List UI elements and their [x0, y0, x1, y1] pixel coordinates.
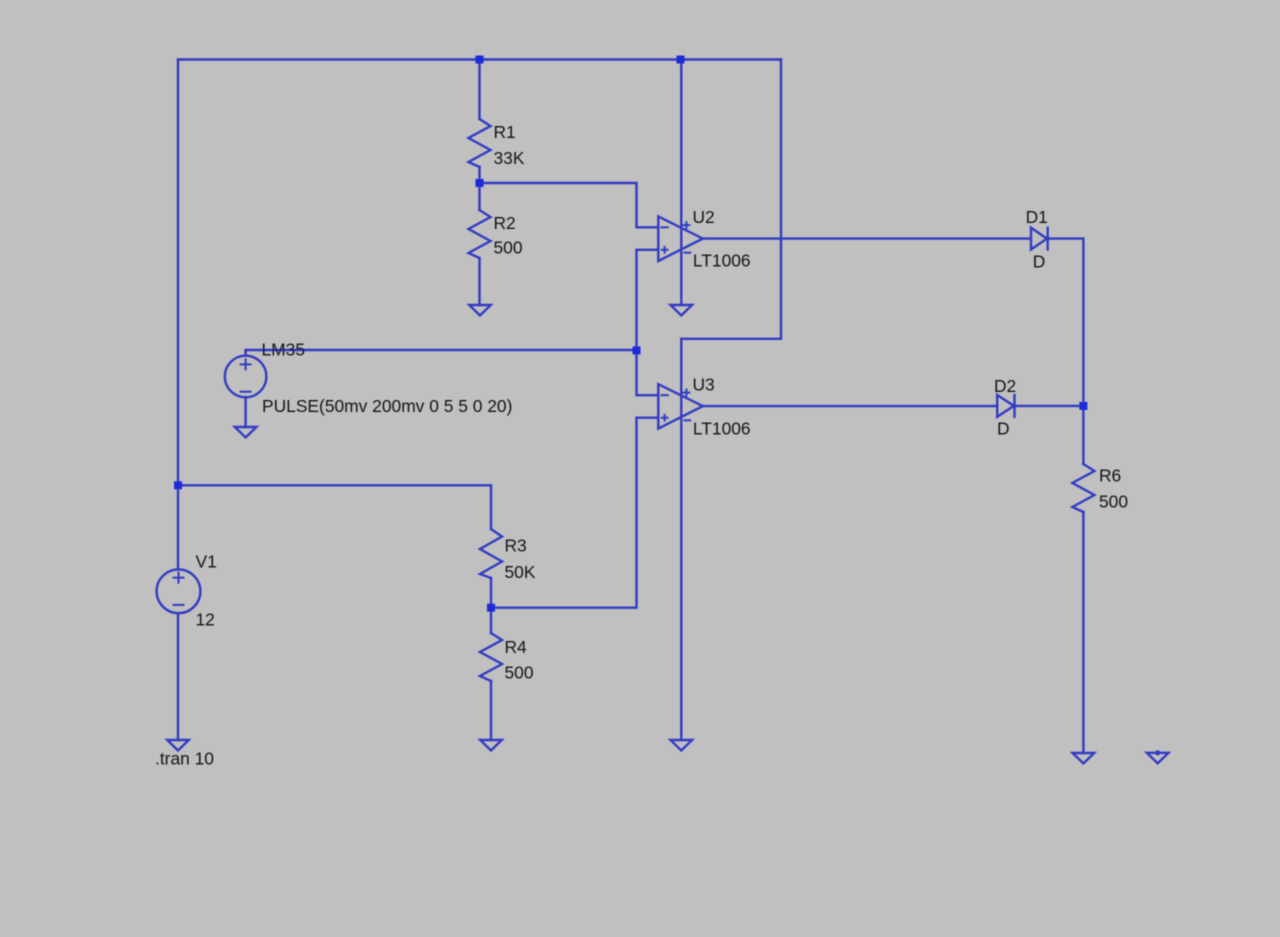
- wire V1 minus to ground: [177, 613, 179, 740]
- ground below LM35: [235, 427, 257, 438]
- svg-text:D2: D2: [994, 376, 1016, 396]
- voltage source LM35: [225, 356, 267, 398]
- ground below R4: [480, 740, 502, 751]
- svg-text:U3: U3: [693, 375, 715, 395]
- svg-text:R1: R1: [494, 122, 516, 142]
- node junction left rail / R3 branch: [174, 481, 182, 489]
- resistor R3: [480, 529, 502, 578]
- svg-text:U2: U2: [693, 207, 715, 227]
- node A LM35 output junction: [633, 346, 641, 354]
- wire D2 cathode to output node: [1015, 405, 1084, 407]
- node junction top rail / U2 power: [677, 56, 685, 64]
- svg-text:R6: R6: [1099, 466, 1121, 486]
- diode D1: [1031, 228, 1048, 250]
- wire LM35 minus to ground: [244, 397, 246, 427]
- resistor R2: [469, 210, 491, 258]
- diode D2: [997, 395, 1014, 417]
- wire R4 bottom lead to ground: [490, 681, 492, 740]
- wire R3-R4 middle: [490, 578, 492, 633]
- wire rail junction to R3 branch: [178, 485, 491, 529]
- wire U3 non-inverting input to R3-R4 tap: [491, 418, 658, 608]
- wire node A to U3 inverting input: [637, 350, 659, 395]
- op-amp U2: [658, 216, 703, 261]
- svg-text:500: 500: [494, 238, 523, 258]
- wire U3 power column: [680, 339, 682, 740]
- node junction R1-R2 tap: [476, 179, 484, 187]
- resistor R4: [480, 633, 502, 681]
- svg-text:500: 500: [1099, 491, 1128, 511]
- svg-text:500: 500: [505, 663, 534, 683]
- svg-text:R4: R4: [505, 637, 528, 657]
- wire left rail from top rail to V1: [177, 60, 179, 570]
- ground below U3: [671, 740, 693, 751]
- wire right supply drop to U3 V+: [681, 60, 781, 339]
- node junction top rail / R1: [476, 56, 484, 64]
- wire U3 output to D2: [703, 405, 997, 407]
- svg-text:D1: D1: [1026, 207, 1048, 227]
- node junction R3-R4 tap: [487, 604, 495, 612]
- ground below R6: [1073, 753, 1095, 764]
- wire R1 top lead: [478, 60, 480, 120]
- node junction D1/D2 output: [1079, 402, 1087, 410]
- wire R1-R2 middle: [478, 167, 480, 210]
- svg-text:D: D: [1033, 252, 1046, 272]
- resistor R1: [469, 119, 491, 167]
- svg-text:.tran 10: .tran 10: [155, 748, 214, 768]
- ground below U2: [671, 305, 693, 316]
- svg-text:LM35: LM35: [262, 340, 306, 360]
- floating ground symbol: [1147, 750, 1169, 763]
- wire output node to R6: [1082, 406, 1084, 464]
- wire R2 bottom lead to ground: [478, 258, 480, 305]
- wire top supply rail: [178, 58, 781, 60]
- wire R6 bottom lead to ground: [1082, 512, 1084, 753]
- svg-text:LT1006: LT1006: [693, 419, 751, 439]
- svg-text:R2: R2: [494, 213, 516, 233]
- ground below V1: [167, 740, 189, 751]
- ground below R2: [469, 305, 491, 316]
- svg-text:LT1006: LT1006: [693, 251, 751, 271]
- resistor R6: [1072, 464, 1094, 512]
- wire LM35 output: [246, 350, 637, 356]
- svg-text:12: 12: [196, 610, 215, 630]
- svg-text:33K: 33K: [494, 148, 525, 168]
- svg-text:V1: V1: [196, 551, 217, 571]
- voltage source V1: [157, 569, 201, 613]
- svg-text:D: D: [997, 419, 1010, 439]
- wire divider tap to U2 inverting input: [480, 183, 659, 227]
- op-amp U3: [658, 384, 703, 428]
- wire U2 non-inverting input to LM35 node: [637, 250, 659, 351]
- svg-text:50K: 50K: [505, 562, 536, 582]
- wire U2 output to D1: [703, 237, 1031, 239]
- svg-text:R3: R3: [505, 535, 527, 555]
- svg-text:PULSE(50mv 200mv 0 5 5 0 20): PULSE(50mv 200mv 0 5 5 0 20): [262, 396, 512, 416]
- wire D1 cathode to output node: [1048, 239, 1084, 406]
- wire U2 power column: [680, 60, 682, 306]
